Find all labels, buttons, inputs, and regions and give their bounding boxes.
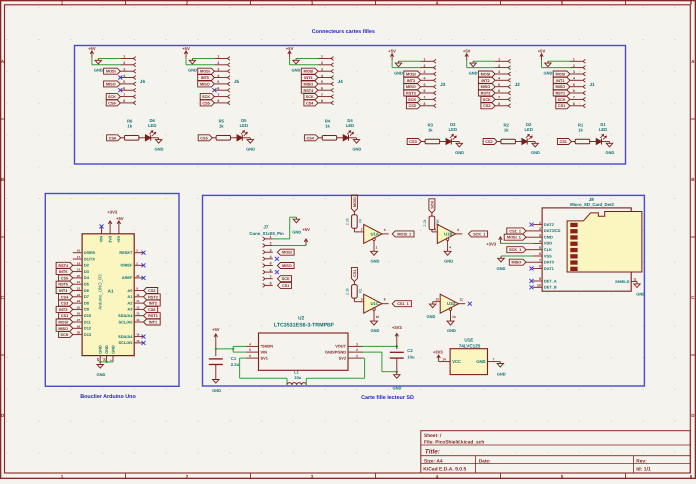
svg-text:U1C: U1C [371, 301, 379, 306]
svg-text:SCK: SCK [108, 95, 116, 99]
svg-text:+5V: +5V [463, 49, 471, 54]
svg-text:MISO: MISO [106, 82, 116, 86]
svg-text:+5V: +5V [116, 216, 124, 221]
svg-text:10: 10 [136, 293, 140, 297]
svg-text:1k: 1k [504, 127, 509, 132]
svg-text:Id: 1/1: Id: 1/1 [636, 467, 651, 473]
svg-text:19: 19 [136, 339, 140, 343]
svg-text:J3: J3 [440, 82, 446, 87]
svg-text:+5V: +5V [388, 49, 396, 54]
svg-text:MOSI_1: MOSI_1 [507, 236, 521, 240]
svg-text:5: 5 [573, 83, 575, 87]
svg-text:+5V: +5V [286, 46, 294, 51]
svg-text:+5V: +5V [302, 227, 310, 232]
svg-text:Date:: Date: [479, 458, 491, 464]
svg-text:RST4: RST4 [58, 264, 69, 268]
svg-text:CS1: CS1 [282, 284, 289, 288]
svg-text:4: 4 [123, 74, 125, 78]
svg-text:CS6: CS6 [109, 136, 116, 140]
svg-text:SHIELD: SHIELD [615, 279, 629, 284]
svg-text:Bouclier Arduino Uno: Bouclier Arduino Uno [80, 394, 136, 400]
svg-text:+5V: +5V [88, 46, 96, 51]
svg-text:J1: J1 [590, 82, 596, 87]
svg-text:2: 2 [498, 64, 500, 68]
svg-text:20: 20 [136, 274, 140, 278]
svg-text:+3V3: +3V3 [107, 210, 118, 215]
svg-text:6: 6 [457, 228, 459, 232]
svg-text:3: 3 [217, 67, 219, 71]
svg-text:Micro_SD_Card_Det2: Micro_SD_Card_Det2 [570, 202, 614, 207]
svg-text:8: 8 [424, 102, 426, 106]
svg-text:LED: LED [148, 123, 156, 128]
svg-text:Arduino_UNO_R3: Arduino_UNO_R3 [98, 274, 103, 310]
svg-text:D13: D13 [84, 332, 92, 337]
svg-text:1: 1 [539, 221, 541, 225]
svg-text:D9: D9 [84, 307, 90, 312]
svg-text:1: 1 [356, 354, 358, 358]
svg-text:13: 13 [136, 312, 140, 316]
svg-text:1: 1 [321, 55, 323, 59]
svg-text:1: 1 [424, 58, 426, 62]
svg-text:9: 9 [539, 277, 541, 281]
svg-text:INT5: INT5 [59, 270, 67, 274]
svg-text:CS3: CS3 [409, 140, 416, 144]
svg-text:7: 7 [539, 258, 541, 262]
svg-text:8: 8 [321, 99, 323, 103]
svg-text:GND: GND [497, 372, 506, 377]
svg-text:6: 6 [321, 87, 323, 91]
svg-text:18: 18 [77, 261, 81, 265]
svg-text:6: 6 [424, 89, 426, 93]
svg-text:DET_A: DET_A [544, 278, 557, 283]
svg-text:8: 8 [123, 99, 125, 103]
svg-text:RK: RK [436, 219, 440, 225]
svg-text:5: 5 [424, 83, 426, 87]
svg-text:C2: C2 [407, 348, 413, 353]
svg-text:SCL/A5: SCL/A5 [119, 319, 134, 324]
svg-text:1: 1 [217, 55, 219, 59]
svg-text:MOSI: MOSI [200, 70, 210, 74]
svg-text:GND: GND [476, 359, 485, 364]
svg-text:D3: D3 [84, 269, 90, 274]
svg-text:1: 1 [573, 58, 575, 62]
svg-text:2: 2 [217, 61, 219, 65]
svg-text:GND: GND [455, 150, 464, 155]
svg-text:74LVC125: 74LVC125 [459, 344, 481, 349]
svg-text:CS4: CS4 [306, 101, 314, 105]
svg-text:CS4: CS4 [61, 295, 69, 299]
svg-text:MOSI: MOSI [58, 321, 68, 325]
svg-text:MISO: MISO [481, 85, 491, 89]
svg-text:6: 6 [123, 87, 125, 91]
svg-text:+3V3: +3V3 [486, 242, 497, 247]
svg-text:6: 6 [498, 89, 500, 93]
svg-text:MISO: MISO [304, 82, 314, 86]
svg-text:RST1: RST1 [148, 314, 158, 318]
svg-text:6: 6 [270, 268, 272, 272]
svg-text:3: 3 [321, 67, 323, 71]
svg-text:GND/PGND: GND/PGND [325, 349, 346, 354]
svg-text:Title:: Title: [425, 449, 440, 456]
svg-text:29: 29 [77, 331, 81, 335]
svg-text:CS1: CS1 [61, 314, 68, 318]
svg-text:D11: D11 [84, 319, 92, 324]
svg-text:GND: GND [393, 385, 402, 390]
svg-text:INT1: INT1 [556, 79, 564, 83]
svg-text:D7: D7 [84, 294, 89, 299]
svg-text:10: 10 [376, 315, 380, 319]
svg-text:MISO: MISO [555, 85, 565, 89]
svg-text:CS1: CS1 [560, 140, 567, 144]
svg-text:18: 18 [136, 333, 140, 337]
svg-text:29: 29 [96, 357, 100, 361]
svg-text:GND: GND [98, 345, 103, 354]
svg-text:4: 4 [539, 240, 541, 244]
svg-text:VDD: VDD [544, 241, 552, 246]
svg-text:7: 7 [217, 93, 219, 97]
svg-text:GND: GND [497, 266, 506, 271]
svg-text:7: 7 [123, 93, 125, 97]
svg-text:GND: GND [447, 328, 456, 333]
svg-text:VCC: VCC [452, 359, 461, 364]
svg-text:6: 6 [539, 252, 541, 256]
svg-text:INT3: INT3 [407, 79, 415, 83]
svg-text:+3V3: +3V3 [392, 325, 403, 330]
svg-text:RST3: RST3 [406, 92, 416, 96]
svg-text:A1: A1 [108, 289, 114, 294]
svg-text:2: 2 [573, 64, 575, 68]
svg-text:GND: GND [212, 388, 221, 393]
svg-text:CS2: CS2 [485, 140, 492, 144]
svg-text:9: 9 [361, 298, 363, 302]
svg-text:1: 1 [123, 55, 125, 59]
svg-text:+5V: +5V [538, 49, 546, 54]
svg-text:RST4: RST4 [304, 89, 315, 93]
svg-text:3: 3 [424, 70, 426, 74]
svg-text:4: 4 [573, 77, 575, 81]
svg-text:L1: L1 [294, 370, 299, 375]
svg-text:MISO: MISO [200, 82, 210, 86]
svg-text:U2: U2 [298, 315, 304, 321]
svg-text:CS3: CS3 [409, 104, 416, 108]
svg-text:5: 5 [498, 83, 500, 87]
svg-text:+5V: +5V [116, 235, 121, 242]
svg-text:MISO: MISO [282, 264, 292, 268]
svg-text:SV1: SV1 [261, 355, 269, 360]
svg-text:A2: A2 [127, 300, 133, 305]
svg-text:2: 2 [361, 228, 363, 232]
svg-text:7: 7 [573, 96, 575, 100]
svg-text:CS1_1: CS1_1 [397, 302, 409, 306]
svg-text:MISO: MISO [406, 85, 416, 89]
svg-text:INT4: INT4 [304, 76, 313, 80]
svg-text:RESET: RESET [119, 250, 133, 255]
svg-text:4: 4 [498, 77, 500, 81]
svg-text:GND: GND [110, 345, 115, 354]
svg-text:GND: GND [605, 150, 614, 155]
svg-text:CS5: CS5 [200, 136, 207, 140]
svg-text:DET_B: DET_B [544, 285, 557, 290]
svg-text:RST2: RST2 [148, 295, 158, 299]
svg-text:GND: GND [97, 372, 106, 377]
svg-text:1k: 1k [325, 124, 330, 129]
svg-text:7: 7 [498, 96, 500, 100]
svg-text:SDA/A4: SDA/A4 [118, 334, 133, 339]
svg-text:CS1: CS1 [558, 104, 565, 108]
svg-text:12: 12 [435, 298, 439, 302]
svg-text:RST2: RST2 [481, 92, 491, 96]
svg-text:6: 6 [573, 89, 575, 93]
svg-text:GND: GND [469, 70, 478, 75]
svg-text:MOSI: MOSI [481, 73, 491, 77]
svg-text:5: 5 [123, 80, 125, 84]
svg-text:1k: 1k [578, 127, 583, 132]
svg-text:U1E: U1E [464, 337, 473, 342]
svg-text:4: 4 [424, 77, 426, 81]
svg-text:VSS: VSS [544, 253, 552, 258]
svg-text:DAT2: DAT2 [544, 222, 555, 227]
svg-text:CMD: CMD [544, 235, 553, 240]
svg-text:SCL/A5: SCL/A5 [119, 340, 134, 345]
svg-text:A1: A1 [127, 294, 133, 299]
svg-text:CS2: CS2 [483, 104, 490, 108]
svg-text:CS6: CS6 [108, 101, 115, 105]
svg-text:1: 1 [498, 58, 500, 62]
svg-text:1: 1 [270, 235, 272, 239]
svg-text:CS4: CS4 [307, 136, 315, 140]
svg-text:2.2k: 2.2k [346, 218, 350, 225]
svg-text:KiCad E.D.A. 9.0.5: KiCad E.D.A. 9.0.5 [423, 467, 466, 473]
svg-text:7: 7 [493, 357, 495, 361]
svg-text:4: 4 [270, 255, 272, 259]
svg-text:24: 24 [77, 299, 81, 303]
svg-text:INT2: INT2 [481, 79, 489, 83]
svg-text:Connecteurs cartes filles: Connecteurs cartes filles [312, 29, 375, 35]
svg-text:23: 23 [77, 293, 81, 297]
svg-text:SCK: SCK [306, 95, 314, 99]
svg-text:5: 5 [270, 262, 272, 266]
svg-text:3: 3 [539, 233, 541, 237]
svg-text:GND: GND [444, 258, 453, 263]
svg-text:4: 4 [249, 342, 251, 346]
svg-text:D4: D4 [84, 275, 90, 280]
svg-text:LED: LED [346, 123, 354, 128]
svg-text:6: 6 [249, 354, 251, 358]
svg-text:GND: GND [246, 146, 255, 151]
svg-text:GND: GND [636, 291, 645, 296]
svg-text:IOREF: IOREF [121, 263, 134, 268]
svg-text:2: 2 [321, 61, 323, 65]
svg-text:28: 28 [77, 324, 81, 328]
svg-text:GND: GND [426, 314, 435, 319]
svg-text:D0/RX: D0/RX [84, 250, 96, 255]
svg-text:13: 13 [452, 315, 456, 319]
svg-text:INT4: INT4 [59, 289, 68, 293]
svg-text:1k: 1k [127, 124, 132, 129]
svg-text:1k: 1k [428, 127, 433, 132]
svg-text:2: 2 [270, 242, 272, 246]
svg-text:RST1: RST1 [555, 92, 565, 96]
svg-text:CS1: CS1 [353, 270, 357, 277]
svg-text:25: 25 [77, 305, 81, 309]
svg-text:10u: 10u [294, 375, 301, 380]
svg-text:22: 22 [77, 287, 81, 291]
svg-text:3: 3 [384, 228, 386, 232]
svg-text:3: 3 [356, 342, 358, 346]
svg-text:4: 4 [449, 245, 451, 249]
svg-text:SCK: SCK [408, 98, 416, 102]
svg-text:19: 19 [77, 268, 81, 272]
svg-text:20: 20 [77, 274, 81, 278]
svg-text:C1: C1 [231, 356, 237, 361]
svg-text:SDA/A4: SDA/A4 [118, 313, 133, 318]
svg-text:21: 21 [77, 280, 81, 284]
svg-text:4: 4 [217, 74, 219, 78]
svg-text:J7: J7 [263, 224, 269, 229]
svg-text:MISO: MISO [512, 261, 522, 265]
svg-text:SV2: SV2 [339, 355, 347, 360]
svg-text:LED: LED [599, 127, 607, 132]
svg-text:2.2k: 2.2k [346, 288, 350, 295]
svg-text:D5: D5 [84, 282, 90, 287]
svg-text:MOSI_1: MOSI_1 [397, 232, 411, 236]
svg-text:CS2: CS2 [148, 289, 155, 293]
svg-text:SCK_1: SCK_1 [473, 232, 485, 236]
svg-text:CS5: CS5 [61, 276, 68, 280]
svg-text:CS1_1: CS1_1 [509, 229, 521, 233]
svg-text:Size: A4: Size: A4 [424, 458, 443, 464]
svg-text:8: 8 [539, 265, 541, 269]
svg-text:A3: A3 [127, 307, 133, 312]
svg-text:SCK: SCK [202, 95, 210, 99]
svg-text:CS5: CS5 [202, 101, 209, 105]
svg-text:GND: GND [155, 146, 164, 151]
svg-text:5: 5 [434, 228, 436, 232]
svg-text:MISO: MISO [58, 327, 68, 331]
svg-text:CS6: CS6 [148, 308, 155, 312]
svg-text:INT1: INT1 [149, 321, 157, 325]
svg-text:+3V3: +3V3 [433, 349, 444, 354]
svg-text:1: 1 [376, 245, 378, 249]
svg-text:INT3: INT3 [59, 308, 67, 312]
svg-text:LTC3531ES6-3-TRMPBF: LTC3531ES6-3-TRMPBF [274, 322, 335, 328]
svg-text:26: 26 [77, 312, 81, 316]
svg-text:VIN: VIN [99, 236, 104, 243]
svg-text:SCK_1: SCK_1 [509, 248, 521, 252]
svg-text:VIN: VIN [261, 349, 268, 354]
svg-text:GND: GND [371, 328, 380, 333]
svg-text:1k: 1k [219, 124, 224, 129]
svg-text:VOUT: VOUT [335, 344, 346, 349]
svg-text:D8: D8 [84, 300, 90, 305]
svg-text:MOSI: MOSI [555, 73, 565, 77]
svg-text:GND: GND [531, 150, 540, 155]
svg-text:8: 8 [217, 99, 219, 103]
svg-text:Sheet: /: Sheet: / [424, 433, 442, 439]
svg-text:SCK: SCK [430, 200, 434, 208]
svg-text:3: 3 [123, 67, 125, 71]
svg-text:3: 3 [498, 70, 500, 74]
svg-text:10: 10 [537, 284, 541, 288]
svg-text:MOSI: MOSI [106, 70, 116, 74]
svg-text:2: 2 [123, 61, 125, 65]
svg-text:GND: GND [352, 146, 361, 151]
svg-text:17: 17 [77, 255, 81, 259]
svg-text:J5: J5 [234, 79, 240, 84]
svg-text:Carte fille lecteur SD: Carte fille lecteur SD [361, 395, 414, 401]
svg-text:7: 7 [321, 93, 323, 97]
svg-text:16: 16 [77, 249, 81, 253]
svg-text:MOSI: MOSI [304, 70, 314, 74]
svg-text:14: 14 [136, 318, 140, 322]
svg-text:8: 8 [384, 298, 386, 302]
svg-text:+5V: +5V [182, 46, 190, 51]
svg-text:Conn_01x08_Pin: Conn_01x08_Pin [249, 231, 284, 236]
svg-text:U1D: U1D [447, 301, 455, 306]
svg-text:A0: A0 [127, 288, 132, 293]
svg-text:11: 11 [136, 299, 139, 303]
svg-text:SCK: SCK [282, 277, 290, 281]
svg-text:2: 2 [356, 348, 358, 352]
svg-text:14: 14 [442, 357, 446, 361]
svg-text:6: 6 [217, 87, 219, 91]
svg-text:GND: GND [394, 70, 403, 75]
svg-text:MOSI: MOSI [353, 197, 357, 207]
svg-text:3: 3 [573, 70, 575, 74]
svg-text:5: 5 [321, 80, 323, 84]
svg-text:5: 5 [217, 80, 219, 84]
svg-text:File: PicoShield.kicad_sch: File: PicoShield.kicad_sch [424, 439, 484, 445]
svg-text:5: 5 [539, 246, 541, 250]
svg-text:GND: GND [543, 70, 552, 75]
svg-text:INT2: INT2 [149, 302, 157, 306]
svg-text:U1B: U1B [444, 231, 452, 236]
svg-text:CS3: CS3 [61, 302, 68, 306]
svg-text:Rev:: Rev: [636, 458, 647, 464]
svg-text:R1: R1 [358, 288, 362, 293]
svg-text:D2: D2 [84, 263, 90, 268]
svg-text:3V3: 3V3 [107, 235, 112, 243]
svg-text:GND: GND [292, 230, 301, 235]
svg-text:J4: J4 [338, 79, 344, 84]
svg-text:LED: LED [525, 127, 533, 132]
svg-text:2.2u: 2.2u [231, 362, 240, 367]
svg-text:D6: D6 [84, 288, 90, 293]
svg-text:SCK: SCK [60, 333, 68, 337]
svg-text:*SHDN: *SHDN [261, 344, 274, 349]
svg-text:2: 2 [539, 227, 541, 231]
svg-text:7: 7 [424, 96, 426, 100]
svg-text:U1A: U1A [371, 231, 379, 236]
svg-text:2: 2 [424, 64, 426, 68]
svg-text:8: 8 [498, 102, 500, 106]
svg-text:2.2k: 2.2k [423, 219, 427, 226]
svg-text:LED: LED [240, 123, 248, 128]
svg-text:J6: J6 [140, 79, 146, 84]
svg-text:GND: GND [104, 345, 109, 354]
svg-text:MOSI: MOSI [282, 251, 292, 255]
svg-text:D10: D10 [84, 313, 91, 318]
svg-text:RST5: RST5 [58, 283, 68, 287]
svg-text:LED: LED [449, 127, 457, 132]
svg-text:SCK: SCK [483, 98, 491, 102]
svg-text:SCK: SCK [558, 98, 566, 102]
svg-text:J2: J2 [515, 82, 521, 87]
svg-text:MOSI: MOSI [406, 73, 416, 77]
svg-text:11: 11 [460, 298, 464, 302]
svg-text:+5V: +5V [212, 327, 220, 332]
svg-text:27: 27 [77, 318, 81, 322]
